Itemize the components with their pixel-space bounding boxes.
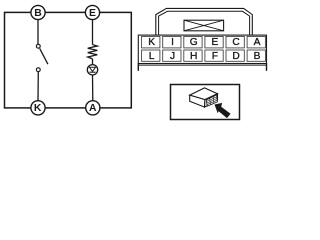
icon connector right face <box>205 94 218 107</box>
icon pointer arrow <box>215 103 231 118</box>
icon connector top face <box>190 88 218 100</box>
svg-text:A: A <box>89 103 97 114</box>
pin cell A <box>247 36 265 48</box>
svg-text:I: I <box>171 37 174 48</box>
svg-text:A: A <box>254 37 261 48</box>
svg-text:H: H <box>190 51 197 62</box>
pin cell C <box>226 36 244 48</box>
connector J1 keying box with X <box>184 20 224 31</box>
svg-text:F: F <box>212 51 218 62</box>
wire: LED to A <box>92 75 94 101</box>
icon connector pin row line 3 <box>207 100 217 105</box>
LED D1 circle <box>87 65 97 75</box>
switch S1 blade <box>40 48 48 64</box>
pin cell B <box>247 50 265 61</box>
pin cell E <box>205 36 223 48</box>
svg-text:G: G <box>190 37 198 48</box>
svg-text:K: K <box>34 103 42 114</box>
svg-text:D: D <box>232 51 239 62</box>
wire: left circuit outer rectangle <box>5 12 132 108</box>
icon connector pin block outline <box>206 95 217 106</box>
pin cell H <box>184 50 202 61</box>
svg-text:J: J <box>170 51 175 62</box>
pin cell F <box>205 50 223 61</box>
connector J1 body lower rim line <box>138 64 266 66</box>
connector J1 keying X diagonal 1 <box>184 20 224 31</box>
connector J1 body outer rectangle <box>138 35 266 63</box>
switch S1 terminal circle top <box>36 44 40 48</box>
pin cell J <box>163 50 181 61</box>
pin cell G <box>184 36 202 48</box>
svg-text:E: E <box>212 37 219 48</box>
pin cell K <box>142 36 160 48</box>
pin cell D <box>226 50 244 61</box>
LED D1 triangle <box>90 67 96 71</box>
resistor R1 zigzag <box>88 45 98 59</box>
wire: B to switch <box>37 20 39 45</box>
icon connector pin row line 1 <box>207 97 217 102</box>
terminal B circle <box>31 5 45 19</box>
svg-text:B: B <box>254 51 261 62</box>
svg-text:B: B <box>34 8 42 19</box>
pin cell I <box>163 36 181 48</box>
icon legend box <box>171 85 240 120</box>
wire: switch to K <box>37 72 39 101</box>
svg-text:L: L <box>149 51 155 62</box>
connector J1 right leg <box>266 64 268 71</box>
wire: E to resistor <box>92 20 94 45</box>
terminal E circle <box>85 5 99 19</box>
icon connector pin tick 1 <box>209 98 212 105</box>
LED D1 cathode bar <box>89 71 95 73</box>
icon connector pin row line 2 <box>207 98 217 103</box>
svg-text:C: C <box>232 37 239 48</box>
svg-text:E: E <box>89 8 96 19</box>
pin cell L <box>142 50 160 61</box>
connector J1 keying X diagonal 2 <box>184 20 224 31</box>
connector J1 hood outer outline <box>156 8 253 35</box>
connector J1 left leg <box>137 64 139 71</box>
svg-text:K: K <box>148 37 155 48</box>
connector J1 hood inner outline <box>159 11 250 35</box>
switch S1 terminal circle bottom <box>36 68 40 72</box>
icon connector pin tick 2 <box>212 97 215 104</box>
wire: resistor to LED <box>92 59 94 65</box>
icon connector left face <box>190 95 205 107</box>
terminal A circle <box>86 101 100 115</box>
terminal K circle <box>31 101 45 115</box>
